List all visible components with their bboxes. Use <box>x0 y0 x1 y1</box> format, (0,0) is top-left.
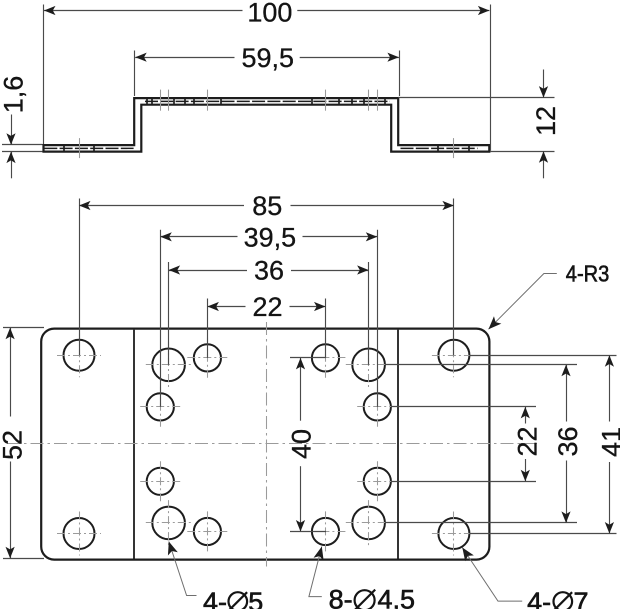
bend line left <box>133 330 135 559</box>
dimension 40 line and arrows <box>300 358 302 421</box>
profile section outline (hat bracket) <box>44 98 490 152</box>
svg-text:22: 22 <box>252 292 282 322</box>
bend line right <box>397 330 399 559</box>
plate outline with rounded corners <box>41 329 489 560</box>
hole D4.5 mid-lower right with centerlines <box>364 468 391 495</box>
svg-text:4-: 4- <box>527 587 551 609</box>
leader to D5 hole <box>169 542 197 596</box>
svg-text:8-: 8- <box>329 585 353 609</box>
svg-text:36: 36 <box>553 426 583 456</box>
hole D4.5 upper row right with centerlines <box>312 344 339 371</box>
hole D5 bottom-right with centerlines <box>352 507 385 540</box>
hole D7 bottom-right with centerlines <box>438 518 469 549</box>
dimension 52 line and arrows <box>10 328 12 417</box>
svg-text:100: 100 <box>247 0 292 27</box>
dimension 1,6 extension lines <box>2 144 43 146</box>
dimension 36 extension lines <box>168 262 170 365</box>
hole D7 bottom-left with centerlines <box>64 518 95 549</box>
svg-text:4,5: 4,5 <box>378 585 416 609</box>
dimension 22 right line and arrows <box>525 407 527 424</box>
hole D5 top-right with centerlines <box>352 349 385 382</box>
dimension 22 line and arrows <box>207 306 245 308</box>
dimension 36 right line and arrows <box>566 365 568 422</box>
svg-text:36: 36 <box>254 256 284 286</box>
svg-text:85: 85 <box>252 191 282 221</box>
plate vertical centerline <box>266 322 268 567</box>
dimension 59,5 line and arrows <box>135 57 234 59</box>
dimension 40 extension lines <box>290 357 326 359</box>
dimension 85 extension lines <box>79 199 81 356</box>
svg-text:59,5: 59,5 <box>242 43 295 73</box>
svg-text:12: 12 <box>531 106 561 136</box>
hole D7 top-right with centerlines <box>438 340 469 371</box>
dimension 100 line and arrows <box>44 10 243 12</box>
svg-text:39,5: 39,5 <box>244 223 297 253</box>
dimension 52 extension lines <box>3 327 44 329</box>
hole D7 top-left with centerlines <box>64 340 95 371</box>
hole edges projected in section view <box>63 146 65 151</box>
hole D4.5 lower row right with centerlines <box>312 518 339 545</box>
dimension 100 extension lines <box>43 5 45 145</box>
section mid-thickness line left flange <box>44 147 133 149</box>
hole D5 top-left with centerlines <box>152 349 185 382</box>
leader to D7 hole <box>462 548 522 602</box>
hole D5 bottom-left with centerlines <box>152 507 185 540</box>
svg-text:1,6: 1,6 <box>0 76 29 114</box>
hole D4.5 mid-lower left with centerlines <box>147 468 174 495</box>
svg-text:4-R3: 4-R3 <box>566 261 610 287</box>
svg-text:40: 40 <box>287 429 317 459</box>
leader to D4.5 hole <box>309 547 322 597</box>
dimension 39,5 extension lines <box>160 230 162 407</box>
svg-text:7: 7 <box>574 587 589 609</box>
plate horizontal centerline <box>7 443 541 445</box>
section mid-thickness line right flange <box>401 147 478 149</box>
dimension 39,5 line and arrows <box>160 236 237 238</box>
svg-text:52: 52 <box>0 430 28 460</box>
svg-text:22: 22 <box>512 426 542 456</box>
svg-text:4-: 4- <box>203 587 227 609</box>
svg-text:5: 5 <box>248 587 263 609</box>
hole axes in section view <box>79 138 81 158</box>
dimension 12 line and arrows <box>543 70 545 98</box>
hole D4.5 mid-upper left with centerlines <box>147 393 174 420</box>
dimension 36 line and arrows <box>169 270 247 272</box>
section mid-thickness line raised part <box>145 100 390 102</box>
hole D4.5 lower row left with centerlines <box>194 518 221 545</box>
dimension 1,6 line and arrows <box>11 115 13 145</box>
leader to corner radius <box>489 274 557 330</box>
hole D4.5 upper row left with centerlines <box>194 344 221 371</box>
svg-text:41: 41 <box>597 427 620 457</box>
dimension 22 extension lines <box>207 299 209 358</box>
dimension 59,5 extension lines <box>134 51 136 97</box>
dimension 41 extension lines <box>470 355 617 357</box>
hole D4.5 mid-upper right with centerlines <box>364 393 391 420</box>
dimension 85 line and arrows <box>79 205 244 207</box>
dimension 36 right extension lines <box>385 364 577 366</box>
dimension 41 line and arrows <box>609 355 611 421</box>
dimension 12 extension lines <box>398 97 554 99</box>
dimension 22 right extension lines <box>391 406 536 408</box>
